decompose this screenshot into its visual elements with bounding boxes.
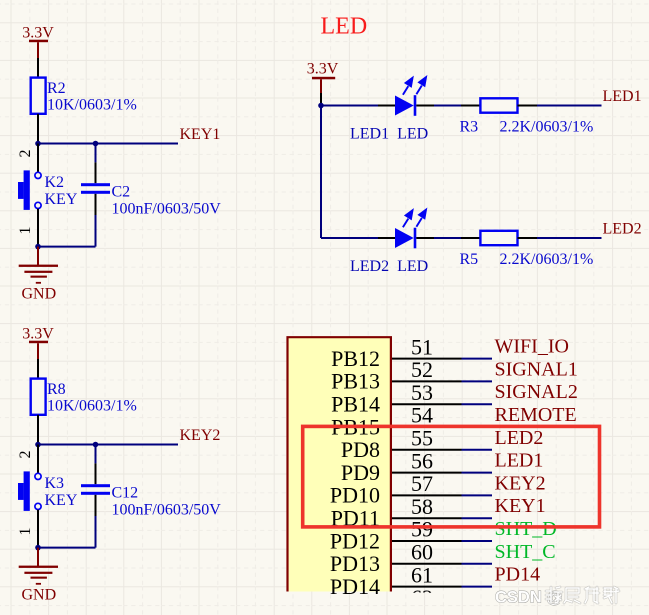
wire R8 to junction [37,415,39,445]
wire 3.3V rail (vertical) [320,106,322,239]
resistor R3 [480,98,517,112]
svg-text:KEY: KEY [45,492,78,509]
resistor R5 pin [518,237,538,239]
svg-text:GND: GND [22,286,57,303]
resistor R3 pin [518,105,538,107]
svg-text:60: 60 [411,540,433,565]
svg-text:KEY: KEY [45,191,78,208]
pin 53 PB14 [331,380,492,417]
wire net KEY1 [38,143,178,145]
svg-text:R8: R8 [47,381,66,398]
svg-text:LED1: LED1 [495,450,544,472]
svg-text:2: 2 [17,150,34,158]
svg-text:LED2: LED2 [603,221,642,238]
svg-text:100nF/0603/50V: 100nF/0603/50V [112,201,222,218]
pin 52 PB13 [331,357,492,394]
svg-text:K2: K2 [45,174,65,191]
wire net LED2 [537,237,602,239]
svg-text:58: 58 [411,494,433,519]
svg-text:52: 52 [411,357,433,382]
capacitor C12 [81,484,110,495]
junction [35,141,41,147]
svg-text:PD9: PD9 [341,460,380,485]
svg-text:3.3V: 3.3V [307,61,339,78]
LED LED2 emission arrows [403,210,426,228]
wire LED1 to R3 [434,105,461,107]
switch K3 pin 2 [37,445,39,474]
junction [35,244,41,250]
switch K2 pin 1 [37,209,39,247]
svg-text:PD10: PD10 [330,483,380,508]
junction [93,141,99,147]
capacitor C12 pin (bottom) [95,495,97,516]
IC block (MCU port section) [288,337,391,591]
svg-text:61: 61 [411,562,433,587]
svg-text:PB14: PB14 [331,392,380,417]
wire net LED1 [537,105,602,107]
resistor R5 pin [461,237,480,239]
wire R2 to junction [37,114,39,144]
pin 55 PD8 [341,426,492,463]
svg-text:57: 57 [411,471,433,496]
resistor R2 [31,78,46,114]
svg-text:51: 51 [411,334,433,359]
svg-text:CSDN @: CSDN @ [495,589,562,607]
svg-text:SHT_D: SHT_D [495,518,557,540]
resistor R3 pin [461,105,480,107]
svg-text:KEY1: KEY1 [180,126,221,143]
svg-text:WIFI_IO: WIFI_IO [495,336,569,358]
wire 3.3V rail to LED1 [321,105,378,107]
svg-text:PB13: PB13 [331,369,380,394]
pin 54 PB15 [331,403,492,440]
wire power to rail [320,93,322,106]
LED LED1 pin (anode) [378,105,395,107]
svg-text:SIGNAL2: SIGNAL2 [495,381,578,403]
svg-text:KEY2: KEY2 [180,427,221,444]
pin 56 PD9 [341,448,492,485]
svg-text:59: 59 [411,517,433,542]
svg-text:56: 56 [411,448,433,473]
wire to C12 [38,547,96,549]
svg-text:LED1 LED: LED1 LED [350,126,428,143]
pin 60 PD13 [330,540,492,577]
junction [93,442,99,448]
svg-text:54: 54 [411,403,433,428]
ground GND [19,247,58,303]
power port 3.3V (KEY2 pull-up) [22,326,54,360]
svg-text:R3: R3 [460,119,479,136]
pin 61 PD14 [330,562,492,599]
svg-text:REMOTE: REMOTE [495,404,577,426]
capacitor C2 pin (top) [95,144,97,163]
svg-text:3.3V: 3.3V [22,25,54,42]
svg-text:K3: K3 [45,475,65,492]
LED LED1 emission arrows [403,77,426,95]
svg-text:SHT_C: SHT_C [495,541,556,563]
wire 3.3V rail to LED2 [321,237,378,239]
pin 62 (clipped at bottom) [411,585,433,610]
watermark CSDN [495,587,619,607]
LED LED2 [395,228,416,249]
LED LED2 pin (cathode) [416,237,434,239]
wire power to R2 [37,58,39,78]
svg-text:55: 55 [411,426,433,451]
svg-text:100nF/0603/50V: 100nF/0603/50V [112,502,222,519]
LED LED2 pin (anode) [378,237,395,239]
svg-text:GND: GND [22,587,57,604]
svg-text:PD12: PD12 [330,528,380,553]
switch K3 [18,471,41,511]
junction [318,103,324,109]
switch K2 [18,170,41,210]
svg-text:10K/0603/1%: 10K/0603/1% [47,96,137,113]
LED LED1 pin (cathode) [416,105,434,107]
pin 59 PD12 [330,517,492,554]
LED LED1 [395,95,416,116]
junction [35,442,41,448]
svg-text:SIGNAL1: SIGNAL1 [495,358,578,380]
svg-text:R5: R5 [460,251,479,268]
power port 3.3V (KEY1 pull-up) [22,25,54,59]
svg-text:PD14: PD14 [330,574,380,599]
svg-text:C12: C12 [112,485,139,502]
wire LED2 to R5 [434,237,461,239]
svg-text:2: 2 [17,451,34,459]
svg-text:C2: C2 [112,184,131,201]
svg-text:PD8: PD8 [341,437,380,462]
svg-text:3.3V: 3.3V [22,326,54,343]
switch K2 pin 2 [37,144,39,173]
wire net KEY2 [38,444,178,446]
capacitor C2 pin (bottom) [95,194,97,215]
capacitor C2 [81,183,110,194]
svg-text:PB12: PB12 [331,346,380,371]
svg-text:2.2K/0603/1%: 2.2K/0603/1% [500,119,594,136]
svg-text:LED2 LED: LED2 LED [350,258,428,275]
pin 51 PB12 [331,334,492,371]
svg-text:KEY2: KEY2 [495,472,546,494]
svg-text:2.2K/0603/1%: 2.2K/0603/1% [500,251,594,268]
wire to C2 [38,246,96,248]
svg-text:KEY1: KEY1 [495,495,546,517]
pin 58 PD11 [331,494,492,531]
power port 3.3V (LED rail) [307,61,339,94]
svg-text:53: 53 [411,380,433,405]
svg-text:1: 1 [17,528,34,536]
svg-text:PD14: PD14 [495,564,541,586]
svg-text:LED2: LED2 [495,427,544,449]
svg-text:R2: R2 [47,80,66,97]
junction [35,545,41,551]
resistor R8 [31,379,46,415]
ground GND [19,548,58,604]
svg-text:LED1: LED1 [603,88,642,105]
wire power to R8 [37,359,39,379]
capacitor C12 pin (top) [95,445,97,464]
svg-text:10K/0603/1%: 10K/0603/1% [47,397,137,414]
highlight box (red annotation rectangle) [303,426,600,527]
svg-text:1: 1 [17,227,34,235]
svg-text:LED: LED [321,14,368,40]
resistor R5 [480,231,517,245]
switch K3 pin 1 [37,510,39,548]
pin 57 PD10 [330,471,492,508]
svg-text:PD13: PD13 [330,551,380,576]
